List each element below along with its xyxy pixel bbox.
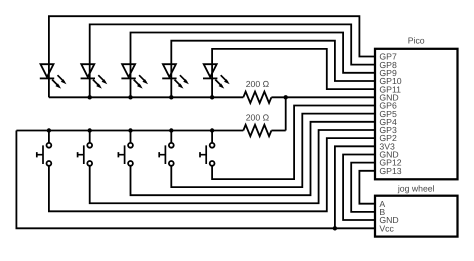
wire Pico GND to jog wheel GND — [343, 154, 375, 220]
wire Vcc node to jog wheel Vcc — [335, 227, 375, 229]
LED D2 — [81, 64, 108, 88]
wire D1 anode to Pico GP7 and cathode to rail — [49, 16, 375, 97]
microcontroller U1 Pico — [375, 49, 458, 180]
svg-text:200 Ω: 200 Ω — [246, 113, 270, 123]
LED D1 — [40, 64, 67, 88]
wire rail to S1 — [48, 131, 50, 143]
resistor R1 200 ohm — [243, 92, 271, 103]
wire S3 to Pico GP4 — [131, 122, 376, 195]
wire D3 anode to Pico GP9 and cathode to rail — [131, 33, 376, 98]
wire S4 to Pico GP5 — [171, 114, 375, 187]
LED D5 — [203, 64, 230, 88]
wire rail to S2 — [89, 131, 91, 143]
svg-text:jog wheel: jog wheel — [397, 184, 435, 194]
wire S5 to Pico GP6 — [212, 105, 375, 179]
wire D5 anode to Pico GP11 and cathode to rail — [212, 49, 375, 97]
wire Pico GP13 to jog wheel A — [359, 171, 375, 204]
junction button rail at S3 — [128, 128, 132, 132]
svg-text:200 Ω: 200 Ω — [246, 79, 270, 89]
svg-text:Vcc: Vcc — [379, 223, 394, 233]
wire LED cathode rail — [49, 96, 243, 98]
wire R2 to GND node — [271, 130, 285, 132]
wire Pico 3V3 to Vcc node — [335, 146, 375, 228]
pushbutton S1 — [37, 143, 52, 166]
junction cathode rail at D4 — [169, 95, 173, 99]
wire rail to S5 — [211, 131, 213, 143]
svg-text:Pico: Pico — [408, 35, 425, 45]
junction GND node — [284, 95, 288, 99]
svg-text:GP13: GP13 — [379, 166, 401, 176]
pushbutton S4 — [159, 143, 174, 166]
wire S2 to Pico GP3 — [90, 130, 375, 203]
junction button rail at S1 — [47, 128, 51, 132]
wire button rail to Vcc node (left loop) — [16, 131, 335, 229]
junction Vcc node — [333, 226, 337, 230]
LED D4 — [162, 64, 189, 88]
junction button rail at S2 — [88, 128, 92, 132]
wire D2 anode to Pico GP8 and cathode to rail — [90, 24, 375, 97]
resistor R2 200 ohm — [243, 125, 271, 136]
pushbutton S2 — [78, 143, 93, 166]
wire Pico GP12 to jog wheel B — [351, 163, 375, 212]
pushbutton S5 — [200, 143, 215, 166]
jog wheel module — [375, 196, 458, 237]
wire rail to S4 — [170, 131, 172, 143]
wire S1 to Pico GP2 — [49, 138, 375, 211]
junction button rail at S4 — [169, 128, 173, 132]
pushbutton S3 — [118, 143, 133, 166]
wire D4 anode to Pico GP10 and cathode to rail — [171, 41, 375, 98]
junction cathode rail at D5 — [210, 95, 214, 99]
wire button rail (3V3) — [16, 130, 243, 132]
junction cathode rail at D3 — [128, 95, 132, 99]
wire R1 to Pico GND — [271, 96, 375, 98]
wire rail to S3 — [130, 131, 132, 143]
junction button rail at S5 — [210, 128, 214, 132]
LED D3 — [121, 64, 148, 88]
junction cathode rail at D2 — [88, 95, 92, 99]
wire GND node down to R2 — [285, 97, 287, 130]
